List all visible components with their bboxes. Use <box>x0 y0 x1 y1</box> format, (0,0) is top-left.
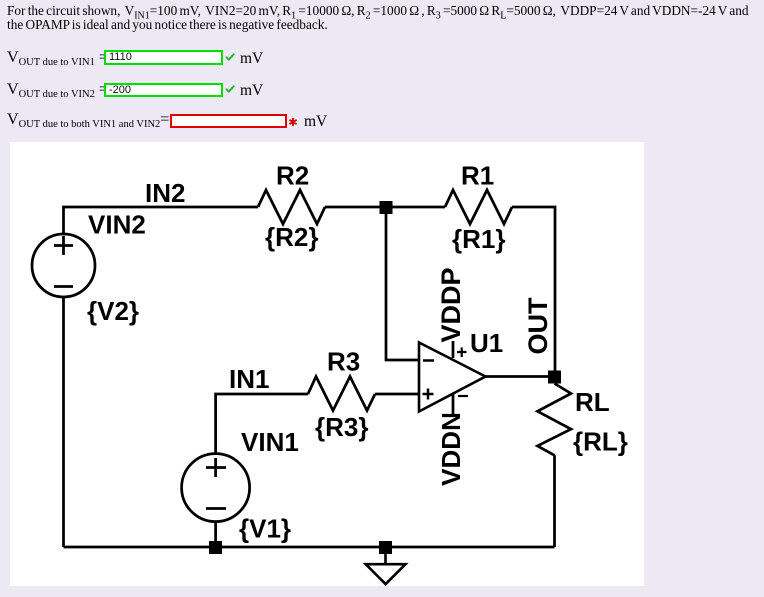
bottom rail wire <box>64 546 555 549</box>
svg-text:OUT: OUT <box>523 297 553 355</box>
svg-text:{R2}: {R2} <box>265 222 318 252</box>
svg-text:{R3}: {R3} <box>315 412 368 442</box>
op-amp inverting input minus <box>423 359 434 362</box>
svg-text:VDDN: VDDN <box>436 412 466 486</box>
answer row 1 green check <box>225 53 236 62</box>
wire RL to bottom rail <box>553 455 556 547</box>
wire R1 to OUT vertical <box>512 207 555 377</box>
junction ground node <box>379 541 392 554</box>
V2 plus sign <box>54 236 73 255</box>
V1 plus sign <box>206 458 226 477</box>
answer row 3 red mark <box>289 118 297 126</box>
wire top rail from V2 to R2 <box>64 207 259 234</box>
wire node A to R1 <box>386 206 445 209</box>
answer row 2 unit <box>240 82 263 100</box>
answer row 3 unit <box>304 113 327 131</box>
node A junction <box>380 201 393 214</box>
op-amp V- supply pin <box>452 394 455 414</box>
resistor R3 <box>308 377 375 411</box>
svg-text:{V1}: {V1} <box>239 514 291 544</box>
node OUT junction <box>548 371 561 384</box>
svg-text:R2: R2 <box>276 161 309 191</box>
wire V1 up to IN1 <box>216 394 308 454</box>
answer row 1 unit <box>240 50 263 68</box>
problem statement paragraph <box>7 4 749 32</box>
wire V1 down to bottom rail <box>214 522 217 547</box>
resistor RL <box>538 384 572 456</box>
op-amp non-inverting input plus <box>423 389 434 400</box>
op-amp V+ plus sign <box>457 348 467 358</box>
svg-text:R3: R3 <box>327 347 360 377</box>
svg-text:IN2: IN2 <box>145 178 185 208</box>
V1 minus sign <box>206 507 226 510</box>
ground symbol <box>366 554 406 584</box>
op-amp U1 <box>419 343 486 412</box>
svg-text:VDDP: VDDP <box>436 267 466 342</box>
op-amp V+ supply pin <box>452 341 455 358</box>
svg-text:IN1: IN1 <box>229 364 269 394</box>
answer row 2 input (correct, green) <box>104 83 223 97</box>
answer row 3 input (incorrect, red, empty) <box>170 114 287 129</box>
svg-text:VIN1: VIN1 <box>241 427 299 457</box>
resistor R2 <box>258 190 325 224</box>
svg-text:VIN2: VIN2 <box>88 210 146 240</box>
answer row 2 label <box>7 81 108 99</box>
voltage source V2 <box>32 234 95 297</box>
wire R2 to node A <box>325 206 386 209</box>
answer row 3 label <box>7 111 169 129</box>
svg-text:{V2}: {V2} <box>87 296 139 326</box>
resistor R1 <box>445 190 512 224</box>
answer row 1 label <box>7 49 108 67</box>
wire op-amp output to OUT node <box>486 375 555 378</box>
wire R3 to non-inverting input <box>375 393 419 396</box>
voltage source V1 <box>182 454 250 522</box>
svg-text:RL: RL <box>575 387 610 417</box>
svg-text:{R1}: {R1} <box>452 224 505 254</box>
svg-text:R1: R1 <box>461 161 494 191</box>
V2 minus sign <box>54 285 73 288</box>
answer row 2 green check <box>225 85 236 94</box>
wire node A down to inverting input <box>386 207 419 360</box>
svg-text:{RL}: {RL} <box>573 427 628 457</box>
wire V2 to bottom rail <box>62 297 65 547</box>
junction V1 bottom <box>209 541 222 554</box>
svg-text:U1: U1 <box>470 328 503 358</box>
answer row 1 input (correct, green) <box>104 50 223 65</box>
op-amp V- minus sign <box>458 395 468 397</box>
